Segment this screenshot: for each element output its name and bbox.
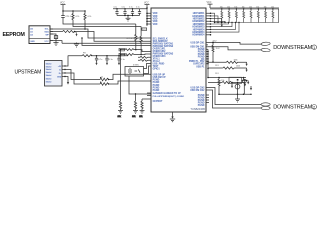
wire choke to IC DP0 bbox=[109, 74, 152, 79]
wire upstream GND bbox=[62, 77, 68, 80]
wire PWRON2 feed bbox=[121, 54, 126, 56]
svg-text:Shield: Shield bbox=[46, 75, 53, 77]
IC U1 left pin stubs mid bbox=[147, 57, 151, 95]
resistor R17 OVRCUR1 pullup bbox=[138, 56, 148, 58]
wire pull-up 3 drop to SCL line bbox=[84, 21, 86, 30]
resistor R44 bbox=[222, 81, 245, 83]
IC U1 left VDD pin stubs bbox=[147, 13, 151, 24]
svg-text:0.1u: 0.1u bbox=[109, 59, 113, 61]
common-mode choke L1 lower winding bbox=[100, 83, 109, 86]
resistor R43 bbox=[218, 78, 220, 95]
svg-text:0.1u: 0.1u bbox=[121, 59, 125, 61]
svg-text:4.7k 4.7k: 4.7k 4.7k bbox=[127, 38, 136, 40]
upstream connector J1 signal pin labels bbox=[57, 66, 62, 79]
crystal Y1 block bbox=[125, 65, 144, 76]
wire pulldown bank top rail bbox=[210, 7, 279, 9]
IC U1 right pin stubs bottom bbox=[206, 88, 209, 103]
svg-text:HDM4M/D4: HDM4M/D4 bbox=[192, 31, 205, 34]
wire bank bottom rail bbox=[215, 22, 279, 24]
resistor R41 bbox=[226, 61, 246, 63]
resistor R37 15k bbox=[264, 6, 267, 22]
wire DS1 DM bbox=[208, 47, 261, 50]
svg-text:10k: 10k bbox=[139, 116, 142, 118]
svg-text:0.1u: 0.1u bbox=[136, 7, 140, 9]
wire port2 ground stub bbox=[237, 94, 239, 99]
svg-text:VCC: VCC bbox=[60, 2, 65, 4]
svg-text:15k: 15k bbox=[264, 6, 267, 8]
wire LED rail port2 bbox=[208, 82, 222, 84]
svg-text:PGND: PGND bbox=[153, 82, 160, 84]
bypass capacitor C1 bbox=[114, 7, 119, 16]
resistor R20 strap bbox=[119, 101, 121, 109]
svg-text:OCPROT: OCPROT bbox=[153, 101, 163, 103]
wire EEPROM VCC to VCC rail bbox=[50, 41, 62, 44]
svg-text:2: 2 bbox=[313, 105, 315, 109]
svg-text:15k: 15k bbox=[242, 6, 245, 8]
svg-text:UPSTREAM: UPSTREAM bbox=[15, 70, 42, 76]
ground arrow (port2 c) bbox=[250, 86, 252, 95]
svg-text:VCC: VCC bbox=[44, 41, 49, 43]
svg-text:15k: 15k bbox=[220, 6, 223, 8]
svg-text:HDM1M/D1: HDM1M/D1 bbox=[192, 16, 205, 18]
capacitor C7 bbox=[117, 56, 124, 62]
svg-text:USB DP CN1: USB DP CN1 bbox=[191, 42, 206, 44]
wire port1 return bbox=[242, 80, 248, 82]
junction dots on pull-up rail bbox=[62, 10, 64, 12]
svg-text:1: 1 bbox=[313, 46, 315, 50]
wire DS2 DP bbox=[208, 88, 261, 105]
wire upstream VBUS bbox=[62, 56, 68, 67]
IC U1 pin stub row9 bbox=[206, 34, 211, 36]
EEPROM U2 pin labels bbox=[30, 28, 35, 43]
ground (bypass bank) bbox=[126, 18, 131, 21]
common-mode choke L1 upper winding bbox=[100, 78, 109, 81]
ground arrow (port2 b) bbox=[244, 83, 246, 87]
capacitor CP6 bbox=[61, 11, 74, 21]
svg-text:100k: 100k bbox=[234, 60, 238, 62]
net label VCC box bbox=[142, 28, 147, 31]
capacitor C6 bbox=[105, 56, 112, 62]
svg-text:PGND: PGND bbox=[153, 90, 160, 92]
wire SDA from EEPROM (series resistor R12) bbox=[50, 31, 63, 33]
wire pull-up 2 to SDA pullup column bbox=[73, 21, 141, 27]
svg-text:WP: WP bbox=[45, 35, 49, 37]
wire PWRON2 line bbox=[208, 67, 223, 69]
resistor R38 15k bbox=[271, 6, 274, 22]
wire GANGED strap bbox=[120, 50, 122, 101]
svg-text:VCC: VCC bbox=[144, 2, 149, 4]
IC U1 right DP/DM pin stubs bbox=[206, 13, 211, 32]
ground arrow (C5) bbox=[95, 62, 97, 66]
svg-text:Shield: Shield bbox=[46, 72, 53, 74]
resistor R14 SDA pull-up 4.7k bbox=[140, 27, 142, 56]
arrow tap at R12 bbox=[74, 31, 78, 37]
svg-text:15k: 15k bbox=[256, 6, 259, 8]
svg-text:HDM4M/D4: HDM4M/D4 bbox=[192, 34, 205, 37]
svg-text:VDD: VDD bbox=[153, 21, 158, 23]
resistor R10 4.7k bbox=[72, 11, 80, 21]
resistor R21 strap bbox=[134, 94, 136, 109]
resistor R33 15k bbox=[234, 6, 237, 22]
IC U1 right pin labels bbox=[189, 13, 205, 107]
ground arrow (C6) bbox=[106, 62, 108, 66]
wire BUSPWR strap bbox=[129, 76, 151, 94]
wire choke to IC DM0 bbox=[109, 81, 152, 84]
ground arrow (upstream GND) bbox=[67, 80, 69, 85]
svg-text:HDP4M/D4: HDP4M/D4 bbox=[193, 28, 205, 31]
wire PWRON bus bbox=[207, 49, 209, 77]
svg-text:10k: 10k bbox=[132, 116, 135, 118]
resistor R15 series PWRON1 bbox=[125, 49, 151, 52]
svg-text:USB DM CN2: USB DM CN2 bbox=[190, 90, 205, 92]
wire crystal to IC XTAL2 bbox=[144, 66, 152, 74]
upstream connector J1 box bbox=[45, 61, 63, 87]
svg-text:EEPROM: EEPROM bbox=[3, 32, 26, 38]
upstream connector J1 shield pin labels bbox=[46, 64, 53, 84]
resistor R31 15k bbox=[220, 6, 223, 22]
svg-text:15 K: 15 K bbox=[216, 48, 221, 50]
wire VCC rail lower to IC bbox=[82, 38, 151, 45]
connector arrow DS2 DM bbox=[261, 107, 270, 110]
ground (A-pins) bbox=[74, 43, 79, 48]
bypass capacitor C4 bbox=[136, 7, 141, 16]
EEPROM U2 pin stubs bbox=[50, 29, 53, 41]
LED D2 bbox=[235, 83, 240, 95]
jumper label box TP2 bbox=[119, 53, 125, 56]
wire EEPROM WP to ground bbox=[50, 34, 56, 41]
wire DP/DM fanout staircase bbox=[211, 13, 240, 32]
wire SCL from EEPROM to IC bbox=[50, 29, 151, 38]
svg-text:15k: 15k bbox=[249, 6, 252, 8]
bypass capacitor C2 bbox=[122, 7, 127, 16]
svg-text:Shield: Shield bbox=[46, 79, 53, 81]
wire bypass cap bank bottom rail bbox=[117, 16, 140, 19]
ground arrow (C7) bbox=[118, 62, 120, 66]
resistor R32 15k bbox=[227, 6, 230, 22]
svg-text:HDM2M/D2: HDM2M/D2 bbox=[192, 21, 205, 23]
svg-text:15k: 15k bbox=[271, 6, 274, 8]
svg-text:DOWNSTREAM: DOWNSTREAM bbox=[273, 105, 312, 111]
svg-text:Shield: Shield bbox=[46, 64, 53, 66]
wire LED rail port1 bbox=[208, 77, 246, 79]
ground (R22) bbox=[139, 109, 144, 118]
svg-text:DOWNSTREAM: DOWNSTREAM bbox=[273, 45, 312, 51]
ground (port2) bbox=[235, 99, 240, 102]
ground arrow (port2 a) bbox=[231, 83, 233, 89]
ground arrow (bank) bbox=[221, 22, 223, 27]
wire upstream D- bbox=[62, 70, 100, 80]
resistor R18 OVRCUR2 pullup bbox=[138, 59, 148, 61]
svg-text:PGND: PGND bbox=[198, 105, 205, 107]
wire DS1 DP bbox=[208, 42, 261, 44]
wire PWRON1 line bbox=[208, 61, 226, 63]
resistor R22 strap bbox=[141, 101, 143, 109]
IC U1 hub controller bbox=[151, 8, 206, 112]
connector arrow DS1 DM bbox=[261, 48, 270, 52]
ground (R20) bbox=[118, 109, 124, 118]
svg-text:PULLUP/PWRDN(OUT1) CONN1: PULLUP/PWRDN(OUT1) CONN1 bbox=[153, 96, 185, 98]
ground arrow (R41) bbox=[246, 62, 248, 66]
svg-text:GND: GND bbox=[57, 76, 62, 78]
wire VBUS rail bbox=[68, 55, 128, 57]
ferrite bead FB1 bbox=[82, 55, 92, 57]
svg-text:VDD: VDD bbox=[153, 19, 158, 21]
resistor R36 15k bbox=[256, 6, 259, 22]
wire SDA to IC bbox=[75, 32, 152, 42]
wire PWRON1 feed bbox=[121, 49, 126, 51]
resistor R11 4.7k bbox=[84, 11, 92, 21]
svg-text:GANGED GANGED TO 1P: GANGED GANGED TO 1P bbox=[153, 92, 182, 95]
svg-text:Shield: Shield bbox=[46, 69, 53, 71]
wire bypass cap bank top rail bbox=[113, 8, 147, 10]
svg-text:VCC: VCC bbox=[207, 2, 212, 4]
svg-text:VDD: VDD bbox=[153, 13, 158, 15]
svg-text:15k: 15k bbox=[234, 6, 237, 8]
capacitor C5 bulk bbox=[95, 56, 102, 62]
IC U1 ground pin stub bbox=[172, 112, 174, 117]
svg-text:GPIO1: GPIO1 bbox=[153, 69, 161, 71]
wire LED bottom rail bbox=[219, 93, 251, 95]
svg-text:15k: 15k bbox=[227, 6, 230, 8]
svg-text:OVRCUR2: OVRCUR2 bbox=[193, 64, 205, 66]
svg-text:100k: 100k bbox=[236, 65, 240, 67]
upstream pin junction dots bbox=[64, 65, 65, 77]
svg-text:SCL: SCL bbox=[45, 29, 50, 31]
svg-text:XTAL2: XTAL2 bbox=[153, 60, 161, 63]
resistor R40 15k bbox=[212, 42, 220, 63]
wire upstream D+ bbox=[62, 73, 100, 84]
wire crystal to IC XTAL1 bbox=[144, 64, 152, 69]
svg-text:VDD: VDD bbox=[153, 24, 158, 26]
power switch U3 box bbox=[229, 77, 242, 83]
svg-text:6 MHz: 6 MHz bbox=[133, 65, 139, 67]
svg-text:HDP2M/D2: HDP2M/D2 bbox=[193, 19, 205, 21]
svg-text:HDM3M/D3: HDM3M/D3 bbox=[192, 27, 205, 29]
connector arrow DS1 DP bbox=[261, 42, 270, 46]
resistor R42 bbox=[223, 67, 247, 69]
power flag VCC (pulldown bank) bbox=[207, 2, 213, 8]
svg-text:10k: 10k bbox=[118, 116, 121, 118]
svg-text:Shield: Shield bbox=[46, 81, 53, 83]
wire VCC rail upper to IC bbox=[62, 42, 151, 44]
resistor R12 in SDA line bbox=[63, 30, 75, 32]
bypass capacitor C3 bbox=[129, 7, 134, 16]
wire pull-up top rail bbox=[63, 10, 85, 12]
resistor R16 series PWRON2 bbox=[125, 54, 151, 56]
power flag VCC (EEPROM pull-up rail) bbox=[60, 2, 66, 11]
wire MODE strap bbox=[142, 99, 151, 101]
svg-text:HDP1M/D1: HDP1M/D1 bbox=[193, 13, 205, 15]
svg-text:Shield: Shield bbox=[46, 66, 53, 68]
LED D1 bbox=[242, 78, 246, 95]
svg-text:USB P1: USB P1 bbox=[196, 66, 205, 68]
svg-text:HDP3M/D3: HDP3M/D3 bbox=[193, 24, 205, 26]
power flag VCC (VDD bus) bbox=[144, 2, 150, 26]
ground arrow (R42) bbox=[246, 68, 248, 72]
EEPROM U2 box bbox=[29, 26, 50, 44]
wire pull-up 1 to SCL pullup column bbox=[63, 21, 136, 25]
junction dots VDD bus bbox=[146, 7, 148, 25]
IC U1 right pin stubs mid bbox=[206, 42, 208, 63]
jumper label box TP1 bbox=[119, 48, 125, 51]
svg-text:4.7u: 4.7u bbox=[98, 59, 102, 61]
ground (IC) bbox=[170, 117, 175, 122]
svg-text:VCC: VCC bbox=[142, 29, 147, 31]
ground (R21) bbox=[132, 109, 138, 118]
resistor R35 15k bbox=[249, 6, 252, 22]
ground (EEPROM WP) bbox=[53, 41, 58, 45]
IC U1 left pin labels bbox=[153, 13, 185, 103]
svg-text:GND: GND bbox=[30, 41, 35, 43]
ground arrow (port1) bbox=[247, 81, 249, 85]
wire DS2 DM bbox=[208, 90, 261, 108]
resistor R34 15k bbox=[242, 6, 245, 22]
connector arrow DS2 DP bbox=[261, 103, 270, 106]
wire bank top rail bbox=[210, 9, 279, 23]
svg-text:VDD: VDD bbox=[153, 16, 158, 18]
resistor R13 SCL pull-up 4.7k bbox=[135, 24, 137, 50]
svg-text:TUSB2046B: TUSB2046B bbox=[190, 107, 205, 111]
svg-text:SDA: SDA bbox=[44, 31, 49, 34]
